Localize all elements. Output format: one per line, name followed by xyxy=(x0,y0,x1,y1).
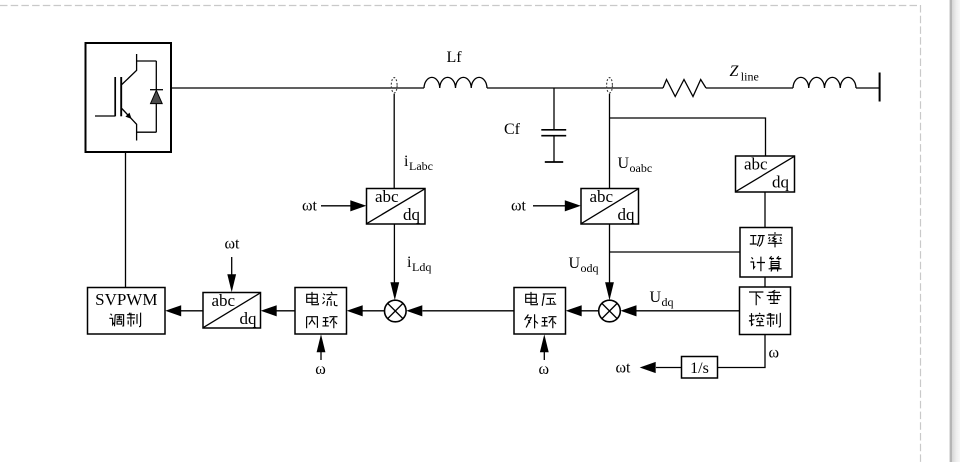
svg-text:1/s: 1/s xyxy=(690,360,709,377)
wire U4 to power calc xyxy=(764,192,766,228)
capacitor Cf lower stem xyxy=(553,136,555,162)
svg-text:odq: odq xyxy=(581,261,599,275)
arrow into SVPWM xyxy=(165,305,181,316)
wire Uoabc drop xyxy=(609,94,611,189)
inductor Lf xyxy=(424,77,487,88)
wire S1 to current loop xyxy=(362,310,385,312)
wire inverter to SVPWM xyxy=(125,152,127,288)
svg-text:dq: dq xyxy=(618,205,636,224)
page top dashed border xyxy=(0,5,920,7)
abc-dq block U3 (Uo) xyxy=(581,187,639,224)
wire inverter output xyxy=(171,87,424,89)
page right edge shadow xyxy=(950,0,952,462)
wire w to current loop xyxy=(320,350,322,360)
wire Uodq branch to power calc xyxy=(610,251,741,253)
svg-text:line: line xyxy=(741,70,759,84)
IGBT Q1 emitter xyxy=(122,109,137,141)
page right dashed border xyxy=(920,5,922,462)
IGBT Q1 emitter arrow xyxy=(125,113,131,119)
wire to terminal xyxy=(856,87,879,89)
arrow into current loop bottom xyxy=(317,334,326,352)
arrow into summer S2 xyxy=(605,282,614,300)
svg-text:Ldq: Ldq xyxy=(412,260,431,274)
current loop block xyxy=(295,288,347,335)
summer S1 circle xyxy=(385,300,407,322)
svg-text:dq: dq xyxy=(403,205,421,224)
voltage loop block xyxy=(514,288,566,335)
svg-text:U: U xyxy=(569,255,581,272)
IGBT Q1 gate bar xyxy=(114,77,116,116)
svg-text:ωt: ωt xyxy=(225,236,241,253)
wire U5 to SVPWM xyxy=(181,310,203,312)
wire iLabc drop xyxy=(393,94,395,189)
wire Uodq drop xyxy=(609,224,611,285)
inverter bridge box xyxy=(86,43,172,152)
arrow into voltage loop bottom xyxy=(540,334,549,352)
arrow into U5 top xyxy=(227,274,236,292)
wire collector to diode xyxy=(137,60,157,62)
ground bar xyxy=(545,161,563,163)
voltage sensor ellipse xyxy=(607,78,613,93)
diode D1 cathode bar xyxy=(150,89,163,91)
svg-text:ω: ω xyxy=(315,361,326,378)
wire current loop to U5 xyxy=(277,310,296,312)
wire iLdq drop xyxy=(393,224,395,285)
svg-text:Cf: Cf xyxy=(504,121,521,138)
resistor Zline-R xyxy=(663,80,706,97)
svg-text:abc: abc xyxy=(590,187,614,206)
wire Lf to resistor xyxy=(487,87,663,89)
wire droop Udq output xyxy=(637,310,740,312)
wire S2 to voltage loop xyxy=(582,310,599,312)
svg-text:abc: abc xyxy=(744,154,768,173)
capacitor Cf stem xyxy=(553,88,555,129)
wire power calc to droop xyxy=(764,277,766,287)
svg-text:ωt: ωt xyxy=(511,198,527,215)
arrow into S1 xyxy=(406,305,422,316)
arrow wt output xyxy=(640,362,656,373)
arrow into summer S1 xyxy=(390,282,399,300)
capacitor Cf plate1 xyxy=(541,129,566,131)
svg-text:oabc: oabc xyxy=(630,161,653,175)
wire integrator output xyxy=(656,367,682,369)
capacitor Cf plate2 xyxy=(541,135,566,137)
wire wt to U2 xyxy=(321,205,351,207)
svg-text:Lf: Lf xyxy=(447,49,463,66)
abc-dq block U4 (PQ) xyxy=(736,154,795,192)
wire droop omega to integrator xyxy=(718,335,766,368)
svg-text:Labc: Labc xyxy=(409,159,433,173)
svg-text:abc: abc xyxy=(375,187,399,206)
wire emitter to diode xyxy=(137,131,157,133)
IGBT Q1 gate lead xyxy=(95,115,115,117)
arrow into voltage loop xyxy=(566,305,582,316)
power calc block xyxy=(740,228,792,278)
droop control block xyxy=(740,287,791,335)
diode D1 triangle xyxy=(151,90,163,103)
svg-text:dq: dq xyxy=(772,173,790,192)
svg-text:ω: ω xyxy=(769,345,780,362)
svg-text:SVPWM: SVPWM xyxy=(95,290,157,309)
svg-text:U: U xyxy=(650,289,662,306)
abc-dq block U2 (iL) xyxy=(367,187,426,224)
arrow into U5 xyxy=(261,305,277,316)
dq-abc block U5 (SVPWM in) xyxy=(203,291,261,328)
svg-text:dq: dq xyxy=(240,309,258,328)
integrator block 1/s xyxy=(682,357,718,379)
wire Uoabc branch to pq transform xyxy=(610,118,766,156)
svg-text:U: U xyxy=(618,155,630,172)
arrow into current loop xyxy=(347,305,363,316)
svg-text:ωt: ωt xyxy=(616,360,632,377)
svg-text:ω: ω xyxy=(539,361,550,378)
wire voltage loop to S1 xyxy=(423,310,515,312)
summer S2 circle xyxy=(599,300,621,322)
SVPWM block xyxy=(88,288,166,335)
svg-text:ωt: ωt xyxy=(302,198,318,215)
svg-text:Z: Z xyxy=(730,63,740,80)
IGBT Q1 body bar xyxy=(120,77,122,116)
arrow into U2 xyxy=(350,200,366,211)
svg-text:dq: dq xyxy=(662,295,674,309)
IGBT Q1 collector xyxy=(122,54,137,85)
arrow into U3 xyxy=(565,200,581,211)
grid terminal bar xyxy=(879,73,881,102)
wire w to voltage loop xyxy=(543,350,545,360)
wire resistor to line inductor xyxy=(706,87,793,89)
wire wt to U3 xyxy=(533,205,565,207)
wire wt to U5 xyxy=(231,257,233,277)
diode D1 anode lead xyxy=(155,104,157,133)
inductor Zline-L xyxy=(793,77,856,88)
diode D1 cathode lead xyxy=(155,61,157,90)
arrow into S2 xyxy=(621,305,637,316)
current sensor ellipse xyxy=(391,78,397,93)
svg-text:abc: abc xyxy=(212,291,236,310)
